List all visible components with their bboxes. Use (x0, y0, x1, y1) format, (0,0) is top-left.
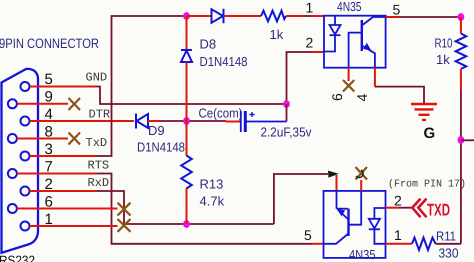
pin circle 3 (21, 152, 30, 161)
wire D8 anode to DTR junction (186, 62, 188, 121)
wire opto U2 pin5 stub (312, 243, 324, 245)
wire resistor to opto pin1 (286, 15, 304, 17)
LED inside U1 (324, 16, 341, 52)
wire capacitor right lead (246, 121, 287, 123)
svg-text:DTR: DTR (89, 108, 111, 122)
no-connect X pin6 U1 (343, 80, 354, 92)
svg-text:Ce(com): Ce(com) (199, 106, 243, 121)
pin circle 2 (21, 187, 30, 196)
wire cap left lead (226, 121, 240, 123)
op-to U1 4N35 box (324, 16, 386, 68)
svg-text:6: 6 (329, 93, 345, 101)
svg-text:TXD: TXD (427, 201, 450, 220)
svg-text:R10: R10 (435, 36, 453, 51)
resistor R10 (460, 17, 462, 34)
svg-text:4: 4 (354, 94, 370, 102)
pin 4 stub U1 (374, 68, 376, 87)
svg-text:5: 5 (304, 227, 312, 243)
wire U2 pin2 stub (386, 207, 400, 209)
pin 6 stub U1 (348, 68, 350, 81)
arrowhead at U2 emitter wire (328, 171, 339, 178)
junction node GND/cap (283, 100, 290, 108)
emitter arrow U2 (337, 209, 345, 216)
no-connect X U2 base (356, 167, 368, 180)
svg-text:5: 5 (393, 2, 401, 18)
pin circle 7 (8, 169, 17, 178)
diode D10 (top series diode) (212, 9, 224, 24)
connector J1 (DB9 body) (2, 69, 39, 253)
wire opto U1 pin1 stub (312, 15, 324, 17)
wire RxD route (96, 191, 274, 224)
svg-text:RS232: RS232 (0, 253, 35, 262)
phototransistor inside U1 (349, 17, 386, 68)
svg-text:4.7k: 4.7k (200, 194, 225, 209)
wire pin6 stub (17, 208, 118, 210)
svg-text:RxD: RxD (88, 176, 110, 190)
svg-text:2: 2 (306, 35, 314, 51)
pin circle 9 (8, 99, 17, 108)
pin circle 5 (21, 82, 30, 91)
pin stub U2 base (X) (360, 180, 362, 191)
svg-text:330: 330 (439, 246, 459, 261)
wire D9 to cap (148, 120, 161, 122)
off-page connector TXD chevrons (412, 199, 426, 218)
wire TxD riser to top rail (96, 16, 187, 156)
phototransistor inside U2 (324, 191, 362, 244)
svg-text:1k: 1k (436, 52, 450, 67)
wire pin7 RTS stub (17, 173, 96, 175)
wire RTS down to bottom rail (96, 174, 312, 244)
svg-text:D1N4148: D1N4148 (200, 54, 248, 69)
ground G (411, 104, 437, 120)
opto U2 4N35 box (324, 191, 386, 258)
wire U2 pin1 stub (386, 243, 413, 245)
junction node top rail / D8 (183, 12, 190, 20)
diode D8 (186, 16, 188, 50)
svg-text:R13: R13 (200, 177, 224, 192)
pin circle 4 (21, 117, 30, 126)
junction node right rail mid (458, 136, 465, 144)
wire pin2 RxD stub (30, 190, 97, 192)
wire pin4 DTR row (30, 120, 135, 122)
svg-text:D8: D8 (200, 37, 217, 52)
wire GND corner down (96, 87, 287, 105)
wire RxD up to opto U2 emitter (274, 174, 328, 224)
svg-text:2.2uF,35v: 2.2uF,35v (261, 125, 312, 140)
wire R11 to right rail (436, 243, 461, 245)
wire opto U1 pin2 stub (312, 51, 324, 53)
svg-text:4N35: 4N35 (349, 247, 376, 262)
wire junction down to capacitor (286, 104, 288, 122)
wire pin1 stub (30, 225, 118, 227)
no-connect X pin8 (69, 133, 81, 145)
svg-text:2: 2 (394, 193, 402, 209)
no-connect X pin1 (118, 219, 131, 232)
svg-text:9PIN CONNECTOR: 9PIN CONNECTOR (0, 36, 99, 51)
wire off-page right (461, 139, 474, 141)
resistor 1k (top) (261, 11, 286, 22)
pin circle 6 (8, 204, 17, 213)
svg-text:D9: D9 (148, 123, 165, 138)
wire diode to resistor (224, 15, 262, 17)
wire right rail (460, 90, 462, 244)
svg-text:GND: GND (86, 71, 108, 85)
wire U1 pin4 to ground (375, 87, 424, 103)
pin circle 1 (21, 222, 30, 231)
svg-text:RTS: RTS (88, 159, 110, 173)
svg-text:R11: R11 (436, 229, 456, 244)
junction node right rail top (458, 13, 465, 21)
svg-text:TxD: TxD (86, 136, 108, 150)
svg-text:G: G (424, 125, 436, 142)
svg-text:1k: 1k (270, 27, 284, 42)
svg-text:1: 1 (306, 0, 314, 16)
wire pin8 stub (17, 138, 68, 140)
emitter arrow U1 (363, 43, 371, 51)
wire pin5 GND stub (30, 86, 97, 88)
diode D9 (136, 114, 148, 129)
svg-text:4N35: 4N35 (337, 0, 362, 14)
LED inside U2 (369, 208, 386, 244)
wire to TXD port (399, 207, 413, 209)
wire GND rail riser to opto pin2 (287, 52, 313, 104)
pin circle 8 (8, 134, 17, 143)
no-connect X pin9 (69, 98, 81, 110)
wire U1 pin5 stub (386, 16, 399, 18)
resistor R13 (186, 121, 188, 156)
svg-text:5: 5 (45, 71, 53, 88)
svg-text:D1N4148: D1N4148 (137, 140, 185, 155)
no-connect X pin6 (118, 203, 131, 216)
junction node DTR/D8/R13 (183, 117, 190, 125)
wire top rail to diode (187, 15, 213, 17)
wire DTR run (160, 120, 226, 122)
resistor R11 (412, 238, 436, 250)
wire U2 emitter stub (336, 175, 338, 191)
wire pin3 TxD stub (30, 155, 97, 157)
junction node RxD/R13 (183, 220, 190, 228)
svg-text:(From PIN 17): (From PIN 17) (388, 179, 466, 191)
wire pin9 stub (17, 103, 68, 105)
svg-text:1: 1 (394, 227, 402, 243)
wire pin5 to right rail (399, 16, 461, 18)
capacitor Ce(com) (241, 111, 255, 132)
